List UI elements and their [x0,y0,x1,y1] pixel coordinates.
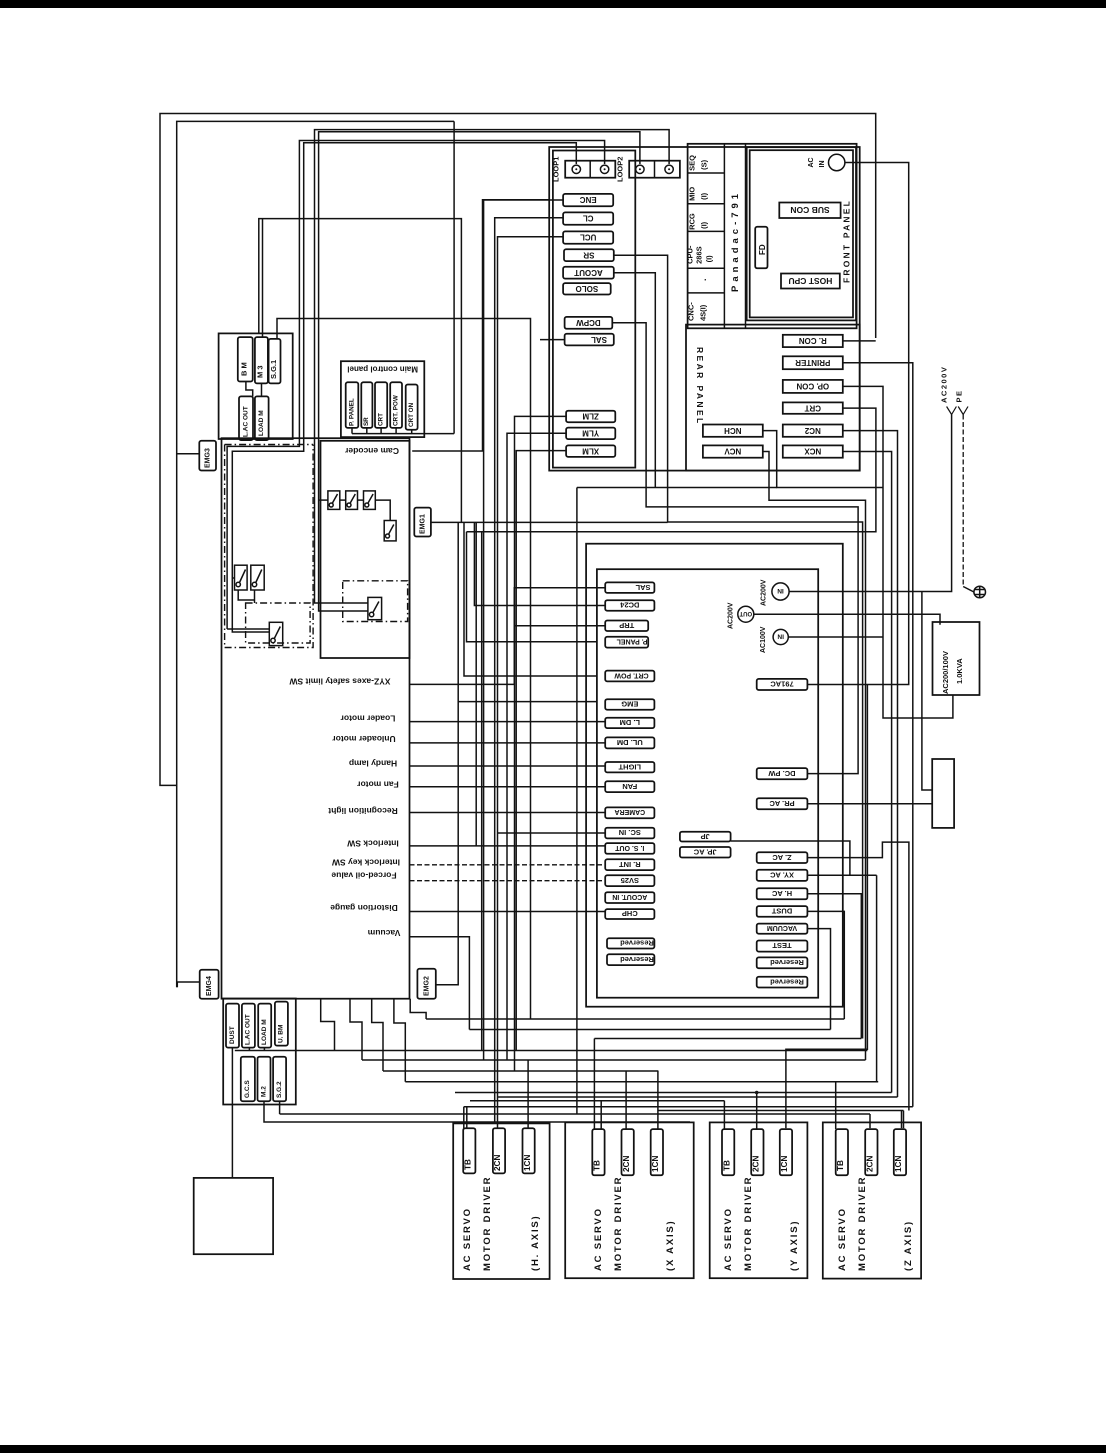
svg-text:SUB CON: SUB CON [790,205,829,215]
svg-text:1.0KVA: 1.0KVA [955,658,964,684]
wire NCV loop [763,452,866,1061]
svg-text:Interlock key SW: Interlock key SW [331,858,400,868]
connector VACUUM m [757,924,808,934]
svg-text:(Z AXIS): (Z AXIS) [903,1220,914,1271]
connector TEST [757,941,808,952]
svg-text:S.G.2: S.G.2 [276,1081,283,1098]
terminal block LOOP2 [629,161,680,178]
connector CL [563,212,613,224]
svg-text:IN: IN [777,587,784,594]
connector JP.AC [680,847,731,858]
svg-text:Vacuum: Vacuum [367,928,400,938]
connector H 1CN [523,1128,535,1173]
connector EMG m [605,699,654,710]
servo Z feeds [835,1082,837,1129]
connector X 1CN [651,1129,663,1175]
bus 1060 [362,1059,866,1061]
wire recognition [410,812,606,814]
svg-text:AC100V: AC100V [760,626,767,653]
servo driver Z box [823,1122,921,1278]
transformer box AC200/100V [933,622,980,695]
wire DC24 drop [474,522,605,605]
square box [194,1178,273,1254]
connector X TB [592,1129,604,1175]
connector H.AC [757,888,808,899]
svg-text:YLM: YLM [582,428,599,437]
wires cam row [319,499,328,501]
connector B M [238,337,253,381]
connector FAN [605,781,654,792]
wire CRT.ON loop drop [453,121,455,433]
wire BM loop via top bus [259,219,462,523]
svg-text:FD: FD [758,244,767,255]
svg-text:R. INT: R. INT [619,860,641,869]
connector DC24 [605,600,654,611]
switch S2 [251,565,264,590]
card CPU-286S(I) [688,267,725,269]
bus 1029.5 vacuum [469,1029,830,1031]
AC200V IN circle [772,583,789,600]
connector NC2 [783,425,843,437]
connector Y 2CN [751,1129,763,1175]
terminal block LOOP1 [565,161,615,178]
connector DC.PW [757,768,808,779]
svg-text:1CN: 1CN [651,1156,660,1172]
connector SAL m [605,582,654,593]
connector H TB [463,1128,475,1173]
connector Z 2CN [865,1129,877,1175]
svg-text:Unloader motor: Unloader motor [332,734,396,744]
cam encoder sub box [321,441,410,658]
wire M2 down [264,1101,690,1122]
connector ZLM [566,411,615,423]
wire SG2 down [279,1101,281,1114]
svg-text:NC2: NC2 [804,426,821,435]
wire S2 bottom stub [254,590,256,603]
wire panel stubs [351,428,353,434]
wire SC.IN tap [498,832,606,834]
servo driver X box [565,1122,694,1278]
svg-text:G.C.S: G.C.S [244,1080,251,1098]
svg-text:CPU-: CPU- [686,245,695,264]
connector LIGHT [605,762,654,772]
bottom scan bar [0,1445,1106,1453]
wire interlock [410,845,606,847]
svg-text:L. DM: L. DM [620,718,640,727]
aux small box [932,759,954,828]
svg-text:(I): (I) [700,192,709,200]
connector TRP [605,621,648,632]
wire loop to S3 [227,628,269,630]
connector L.DM [605,718,654,728]
card blank [688,292,725,294]
machine bottom stub 4 [394,999,405,1082]
cam switch row 3 [364,491,376,510]
svg-text:UL. DM: UL. DM [617,738,643,747]
connector LOAD M [255,396,269,440]
cam switch row 1 boxes [328,491,340,510]
svg-text:TB: TB [593,1160,602,1171]
connector P.PANEL m [605,637,648,648]
connector Z TB [836,1129,848,1175]
wire S1 left stub [232,577,234,579]
svg-text:CRT: CRT [804,403,821,412]
connector Z 1CN [894,1129,906,1175]
big enclosing box top right [549,147,860,471]
wire UCL left loop [498,237,564,1128]
wire VACUUM m [807,929,830,1030]
svg-text:PR. AC: PR. AC [769,799,795,808]
wire Z.AC [807,842,909,1110]
main control panel box [341,361,424,437]
svg-text:Z. AC: Z. AC [772,853,792,862]
svg-text:SEQ: SEQ [688,155,697,171]
svg-text:Reserved: Reserved [620,939,654,948]
svg-text:EMG1: EMG1 [420,514,427,534]
svg-text:SOLO: SOLO [576,284,599,293]
tall left box [553,151,635,468]
wire Y1CN drop [786,1049,868,1128]
PE wire + arrow [962,415,964,587]
wire XY.AC drop [876,875,878,1081]
connector CAMERA [605,807,654,818]
wire cam encoder to loop2 riser [412,200,549,451]
svg-text:VACUUM: VACUUM [767,924,797,931]
wire DCPW to DC.PW [612,323,858,774]
connector Z.AC [757,852,808,863]
svg-text:MOTOR DRIVER: MOTOR DRIVER [743,1176,754,1271]
wire LOOP1 circle2 [227,141,604,630]
connector NCH [703,425,763,437]
svg-text:OP. CON: OP. CON [796,382,829,391]
svg-text:TB: TB [464,1159,473,1170]
connector CRT.ON [406,385,418,430]
connector SR [564,249,614,261]
wire NCH return [577,487,777,489]
svg-text:DCPW: DCPW [576,318,601,327]
connector ACOUT [563,267,614,279]
svg-text:M.2: M.2 [260,1086,267,1097]
svg-text:(Y AXIS): (Y AXIS) [789,1220,800,1271]
dash-dot inner box [246,603,311,643]
switch S1 [235,565,248,590]
wire H.AC [807,894,861,1039]
svg-text:(X AXIS): (X AXIS) [665,1219,676,1271]
svg-text:791AC: 791AC [770,680,794,689]
connector R.INT [605,859,654,870]
BM connector group box [219,333,293,439]
connector I.S.OUT [605,843,654,854]
svg-text:Fan motor: Fan motor [357,780,399,790]
wire CRT loop [467,408,876,532]
servo H feeds [463,1107,465,1129]
wire LOOP2 circle2 [315,130,670,603]
connector UL.DM [605,737,654,748]
svg-text:NCH: NCH [724,426,742,435]
top scan bar [0,0,1106,8]
connector L.AC OUT [239,396,253,440]
svg-text:LIGHT: LIGHT [618,762,641,771]
wire EMG4 left [177,982,199,987]
wire PE to ground [963,587,974,593]
svg-text:UCL: UCL [580,233,597,242]
svg-text:CRT. POW: CRT. POW [614,671,649,678]
svg-text:1CN: 1CN [780,1156,789,1172]
wire AC IN to 791AC [807,163,908,685]
wire EMG tap [458,701,597,703]
connector UCL [563,231,613,243]
svg-text:H. AC: H. AC [771,889,792,898]
svg-text:FAN: FAN [622,782,637,791]
svg-text:ENC: ENC [580,195,597,204]
dash-dot region cam [225,444,314,446]
svg-text:Main control panel: Main control panel [347,365,418,374]
servo driver Y box [710,1122,808,1278]
svg-text:DC24: DC24 [619,601,639,610]
wire BM group stubs [246,382,253,397]
wire CL left loop [495,218,563,1122]
connector DCPW [565,317,613,329]
servo driver H box [453,1123,549,1279]
svg-text:SAL: SAL [591,335,607,344]
svg-text:LOAD M: LOAD M [258,410,265,436]
svg-text:LOOP1: LOOP1 [552,157,561,182]
svg-text:RCG: RCG [688,213,697,230]
wire SG1 loop [277,319,531,1020]
connector LOAD M b [258,1004,271,1048]
wire LOAD M stub [263,1048,265,1051]
middle wrapper box [586,544,843,1007]
wire LOOP1 circle1 [232,143,576,632]
svg-text:NCX: NCX [804,447,822,456]
card MIO(I) [688,203,725,205]
connector SV25 [605,875,654,886]
wire curve CRT.POW [464,522,597,676]
svg-text:TRP: TRP [619,621,634,630]
svg-text:AC200/100V: AC200/100V [941,651,950,694]
EMG3 box [199,441,216,471]
wire fan [410,786,606,788]
wire AC200V out to transformer [754,614,940,625]
connector SR panel [361,382,372,428]
terminal circle 3 [636,165,644,173]
EMG2 box [417,969,435,999]
svg-text:SR: SR [583,250,594,259]
connector ENC [563,194,613,206]
connector CRT [783,402,843,413]
wire S1 bottom stub [238,590,254,600]
connector PR.AC [757,798,808,809]
dash-dot right box [343,581,408,622]
svg-text:P. PANEL: P. PANEL [616,638,648,645]
wire handy [410,765,606,767]
svg-text:AC SERVO: AC SERVO [723,1207,734,1271]
wire YLM left [507,433,566,1060]
cam switch 4 [384,521,396,541]
wire distortion [410,911,606,913]
svg-text:TEST: TEST [772,941,792,950]
svg-text:TB: TB [836,1160,845,1171]
svg-text:Loader motor: Loader motor [340,714,395,724]
wire SR to DC.PW path [614,255,863,1038]
bus 1082 [405,1081,878,1083]
connector JP [680,832,731,842]
wire OP.CON transformer loop [843,386,953,718]
wire NCH drop [576,488,578,1115]
arrow AC200V [947,407,957,415]
svg-text:EMG2: EMG2 [424,976,431,996]
bus 1114 [280,1113,870,1115]
wire NCH loop [763,431,883,488]
svg-text:AC200V: AC200V [940,366,949,403]
connector XLM [566,445,615,457]
svg-text:XLM: XLM [582,446,599,455]
svg-text:Panadac-791: Panadac-791 [730,190,741,292]
svg-text:CRT: CRT [377,413,384,426]
svg-text:AC SERVO: AC SERVO [837,1207,848,1271]
bus 1050 [235,1050,868,1052]
terminal circle 4 [665,165,673,173]
wire PR.AC to aux box [807,803,932,805]
svg-text:L.AC OUT: L.AC OUT [242,406,249,437]
cam switch row 2 [346,491,358,510]
svg-text:JP. AC: JP. AC [693,847,717,856]
svg-text:286S: 286S [695,246,704,264]
machine bottom stub 3 [372,999,383,1071]
connector G.C.S [241,1057,255,1102]
svg-text:PRINTER: PRINTER [795,358,830,367]
wire ACOUT down [614,273,656,488]
svg-text:AC SERVO: AC SERVO [462,1207,473,1271]
card column divider [723,144,725,328]
svg-text:Reserved: Reserved [770,977,804,986]
svg-text:MOTOR DRIVER: MOTOR DRIVER [482,1176,493,1271]
svg-text:XY. AC: XY. AC [769,871,793,880]
connector Reserved 4 [757,977,808,988]
connector XY.AC [757,870,808,881]
terminal circle 1 [572,165,580,173]
connector Y TB [722,1129,734,1175]
connector SUB CON [779,203,840,219]
connector DUST b [226,1004,239,1048]
rack box [688,144,857,328]
svg-text:IN: IN [777,633,784,640]
connector SOLO [563,283,611,294]
connector FD [755,227,767,268]
bus 1073 [383,1070,658,1072]
svg-text:S.G.1: S.G.1 [269,360,278,379]
svg-text:EMG: EMG [621,700,638,709]
wire EMG riser to EMG box [436,522,458,984]
svg-text:HOST CPU: HOST CPU [788,276,832,286]
wire to square box [231,1048,233,1178]
AC200V OUT circle [738,606,754,622]
svg-text:P. PANEL: P. PANEL [348,398,355,426]
svg-text:CRT ON: CRT ON [408,402,415,427]
machine corner stub [410,999,426,1019]
bus 1038.5 [594,1038,861,1040]
svg-text:DUST: DUST [229,1026,236,1044]
EMG1 box [414,508,431,537]
svg-text:SAL: SAL [635,583,650,592]
svg-text:1CN: 1CN [894,1156,903,1172]
AC IN circle [829,154,845,170]
wire PRINTER down [843,363,913,1107]
wire XY.AC [807,874,876,876]
svg-text:SV25: SV25 [621,876,639,885]
AC100V IN circle [773,629,788,644]
svg-text:Interlock SW: Interlock SW [346,839,398,849]
wire DUST m [807,911,844,1019]
wire SAL stub left [540,339,565,341]
connector U.BM [275,1002,288,1046]
svg-text:JP: JP [701,832,710,841]
connector H 2CN [493,1128,505,1173]
svg-text:PE: PE [955,389,964,402]
svg-text:LOAD M: LOAD M [261,1019,268,1045]
connector Reserved 3 [757,957,808,968]
front panel box [747,147,856,320]
EMG4 box [200,970,219,999]
svg-text:(H. AXIS): (H. AXIS) [530,1215,541,1272]
svg-text:4S(I): 4S(I) [699,304,708,321]
svg-text:B M: B M [240,362,249,376]
svg-text:R. CON: R. CON [799,336,827,345]
svg-text:(I): (I) [700,221,709,229]
connector NCV [703,445,763,457]
svg-text:ACOUT: ACOUT [574,268,603,277]
connector CRT panel [375,382,387,428]
machine bottom stub 1 [321,999,335,1051]
bus 1097 [497,1096,897,1098]
machine box [222,438,410,999]
svg-text:CRT. POW: CRT. POW [392,395,399,426]
switch S4 [368,597,382,619]
svg-text:.: . [698,278,708,281]
svg-text:Handy lamp: Handy lamp [349,759,397,769]
servo Y feeds [723,1101,725,1129]
svg-text:EMG4: EMG4 [206,976,213,996]
connector YLM [566,428,615,440]
connector S G 1 [269,339,281,384]
svg-text:Forced-oil value: Forced-oil value [331,871,396,881]
wire unloader [410,742,606,744]
wire ZLM left [515,416,567,1071]
svg-text:AC SERVO: AC SERVO [593,1207,604,1271]
svg-text:U. BM: U. BM [278,1025,285,1043]
svg-text:Recognition light: Recognition light [328,806,398,816]
svg-text:AC200V: AC200V [728,602,735,629]
svg-text:EMG3: EMG3 [205,448,212,468]
svg-text:CL: CL [583,214,594,223]
wire aux box upper feed [922,592,932,791]
svg-text:1CN: 1CN [523,1155,532,1171]
svg-text:XYZ-axes safety limit SW: XYZ-axes safety limit SW [288,677,390,687]
machine bottom stub 2 [350,999,362,1060]
connector 791AC [757,679,808,690]
middle distribution box [597,569,818,998]
svg-text:L.AC OUT: L.AC OUT [245,1014,252,1045]
svg-text:SC. IN: SC. IN [619,828,641,837]
connector P.PANEL [346,382,359,428]
svg-text:2CN: 2CN [622,1156,631,1172]
svg-text:2CN: 2CN [493,1155,502,1171]
svg-text:(S): (S) [700,159,709,170]
svg-text:MIO: MIO [688,187,697,201]
wire AC100V in [788,636,883,638]
connector CRT.POW m [605,671,654,682]
svg-text:2CN: 2CN [752,1156,761,1172]
